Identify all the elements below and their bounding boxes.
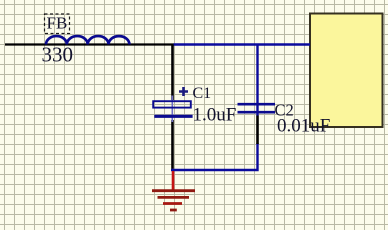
ground: red stem (172, 171, 175, 191)
capacitor C1 plus sign (179, 87, 188, 96)
svg-text:1.0uF: 1.0uF (193, 105, 237, 126)
wire: vertical black wire from top junction to C1 (171, 44, 174, 100)
IC U1 body (yellow rectangle) (310, 14, 383, 128)
selection dashed box around FB label (45, 14, 70, 34)
inductor FB (ferrite bead, 4 arcs) (46, 36, 129, 44)
capacitor C1 (polarized): thin lead through plates (171, 96, 173, 123)
capacitor C1 top plate (hollow rectangle) (153, 101, 191, 107)
ground: bar 3 (163, 202, 182, 205)
wire: vertical black pin from C2 bottom plate (256, 116, 259, 145)
svg-text:FB: FB (47, 14, 68, 33)
ground: bar 2 (158, 196, 190, 199)
svg-text:330: 330 (42, 43, 74, 67)
wire: top horizontal black segment (5, 43, 174, 45)
capacitor C2 top plate (238, 103, 276, 106)
ground: bar 4 (smallest) (170, 209, 177, 212)
ground: bar 1 (widest) (152, 189, 195, 192)
svg-text:C1: C1 (193, 85, 212, 102)
capacitor C2 bottom plate (238, 111, 276, 114)
capacitor C1 bottom plate (solid bar) (154, 115, 192, 118)
wire: bottom horizontal blue wire with corner up to C2 (171, 143, 258, 170)
wire: vertical blue wire from top wire to C2 (256, 45, 258, 117)
svg-text:0.01uF: 0.01uF (277, 116, 330, 137)
wire: top horizontal blue segment to IC (173, 43, 310, 45)
wire: vertical black wire from C1 bottom to bottom wire (171, 120, 174, 169)
